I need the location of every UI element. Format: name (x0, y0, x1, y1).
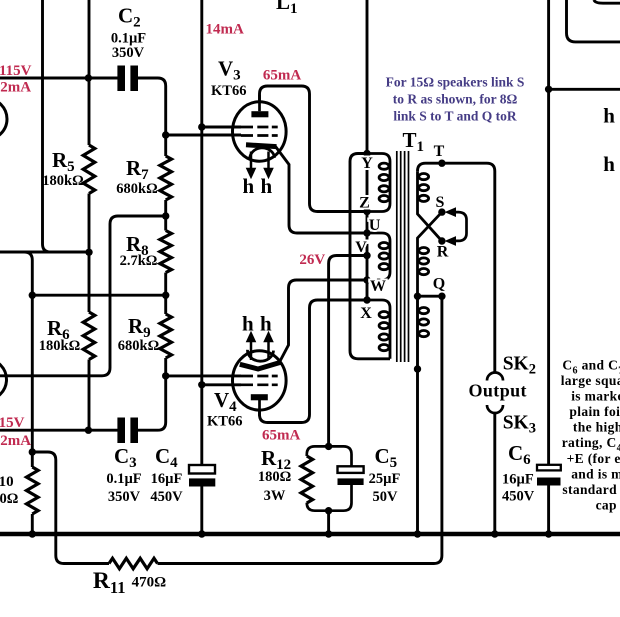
svg-text:S: S (436, 194, 445, 211)
svg-text:U: U (369, 217, 381, 234)
wire R10 top (31, 452, 34, 467)
resistor R10 (27, 467, 39, 514)
T1 secondary section T (418, 171, 442, 241)
svg-text:1.2mA: 1.2mA (0, 80, 31, 96)
resistor R8 (160, 231, 172, 273)
T1 secondary section below Q (419, 308, 429, 314)
transformer T1 (367, 151, 442, 362)
svg-text:16µF: 16µF (151, 471, 183, 487)
resistor R6 (83, 312, 95, 360)
svg-text:R7: R7 (126, 156, 149, 183)
wire R8 tap to V2 stage (0, 216, 166, 376)
svg-text:180kΩ: 180kΩ (42, 173, 83, 189)
svg-text:470Ω: 470Ω (132, 575, 167, 591)
svg-text:3W: 3W (264, 488, 286, 504)
svg-text:X: X (360, 305, 372, 322)
svg-text:450V: 450V (502, 489, 535, 505)
svg-text:+E (for ea: +E (for ea (567, 451, 620, 466)
wire C3 to V4 grid (137, 376, 165, 430)
wire V3 g1 row (166, 134, 241, 137)
svg-text:SK3: SK3 (503, 413, 536, 437)
wire screen rail x=202 (200, 0, 203, 465)
T1 core (397, 151, 409, 362)
note C6 C7 margin (561, 358, 620, 513)
svg-text:180kΩ: 180kΩ (39, 338, 80, 354)
svg-text:180Ω: 180Ω (258, 469, 291, 485)
wire V4 anode to X tap (260, 300, 368, 423)
wire R10 bottom to ground (31, 514, 34, 534)
svg-text:T: T (434, 143, 445, 160)
svg-text:14mA: 14mA (206, 22, 244, 38)
wire C3 row from V2 anode (0, 429, 118, 432)
wire feedback to Q tap (158, 296, 442, 563)
svg-text:cap: cap (596, 498, 617, 513)
wire V3 cathode to U tap (276, 147, 368, 234)
capacitor C2 (117, 66, 138, 92)
resistor R5 (83, 145, 95, 194)
svg-text:680kΩ: 680kΩ (118, 338, 159, 354)
SK3 socket (487, 405, 503, 413)
resistor R7 (160, 156, 172, 200)
svg-text:C6: C6 (508, 441, 531, 468)
T1 primary section Y-Z (367, 154, 382, 212)
svg-text:450V: 450V (150, 489, 183, 505)
svg-text:KT66: KT66 (207, 414, 242, 430)
svg-text:and is ma: and is ma (571, 467, 620, 482)
wire T tap to SK2 (418, 163, 495, 372)
svg-text:R: R (437, 244, 449, 261)
svg-text:16µF: 16µF (502, 472, 534, 488)
svg-text:standard s: standard s (562, 482, 620, 497)
wire y=78 from V1 anode to C2 (0, 77, 118, 80)
wire V4 g2 row (202, 383, 241, 386)
svg-text:h: h (603, 152, 615, 176)
wire V3 anode to Z tap (260, 86, 368, 212)
wire T1 HT feed from L1 (366, 0, 369, 154)
svg-text:25µF: 25µF (369, 471, 401, 487)
R12 C5 parallel loop (307, 446, 352, 510)
svg-text:V3: V3 (218, 57, 241, 84)
svg-text:100Ω: 100Ω (0, 491, 18, 507)
svg-text:115V: 115V (0, 415, 25, 431)
capacitor C5 (338, 466, 364, 485)
svg-text:KT66: KT66 (211, 83, 246, 99)
wire secondary bottom to ground (416, 296, 419, 534)
svg-text:h: h (603, 104, 615, 128)
svg-text:2.7kΩ: 2.7kΩ (120, 253, 158, 269)
wire R7-R8 link (164, 200, 167, 231)
svg-text:65mA: 65mA (262, 428, 300, 444)
T1 primary section U-W (367, 233, 390, 280)
svg-text:680kΩ: 680kΩ (116, 181, 157, 197)
svg-text:C3: C3 (114, 444, 137, 471)
svg-text:link S to T and Q toR: link S to T and Q toR (393, 109, 517, 124)
capacitor C3 (117, 418, 138, 444)
wire feedback takeoff (32, 452, 109, 564)
wire R6 bottom to C3 row (88, 360, 91, 431)
wire bias network to ground (327, 511, 330, 534)
wire from V1 stage at y=252 (0, 251, 89, 254)
svg-text:the highest: the highest (573, 420, 620, 435)
wire V tap to cathode bias network (329, 256, 367, 447)
svg-text:h: h (242, 312, 254, 336)
heater arrows V3 (251, 152, 269, 171)
svg-text:For 15Ω speakers link S: For 15Ω speakers link S (386, 75, 525, 90)
tube V3 (232, 95, 286, 178)
svg-text:350V: 350V (112, 45, 145, 61)
wire T1 primary tap line (366, 154, 369, 301)
T1 secondary section S-Q (418, 212, 442, 296)
wire HT distribution y=295 (32, 294, 165, 297)
tube V2 envelope partial (0, 359, 7, 400)
wire C6 feed (547, 0, 550, 465)
svg-text:R5: R5 (52, 148, 75, 175)
capacitor C6 (537, 465, 561, 486)
tube V4 (232, 332, 286, 416)
svg-text:h: h (243, 174, 255, 198)
wire V3 g2 row (202, 126, 241, 129)
svg-text:R9: R9 (128, 314, 151, 341)
svg-text:h: h (261, 174, 273, 198)
svg-text:350V: 350V (108, 489, 141, 505)
svg-text:C2: C2 (118, 4, 141, 31)
svg-text:Z: Z (359, 195, 370, 212)
resistor R12 (301, 456, 313, 503)
svg-text:W: W (370, 278, 386, 295)
svg-text:50V: 50V (373, 489, 399, 505)
heater arrows V4 (251, 342, 269, 360)
svg-text:is marked: is marked (571, 389, 620, 404)
SK2 socket (487, 373, 503, 381)
link S to R arrows (445, 207, 467, 246)
capacitor C4 (189, 465, 215, 487)
wire C2 right to V3 grid junction (137, 78, 165, 135)
wire corner down to node (24, 252, 32, 295)
wire C4 to ground (200, 487, 203, 535)
svg-text:plain foil: plain foil (569, 404, 620, 419)
svg-text:0.1µF: 0.1µF (106, 471, 141, 487)
wire SK3 to ground (493, 413, 496, 534)
svg-text:SK2: SK2 (503, 354, 536, 378)
svg-text:large square: large square (561, 373, 620, 388)
wire HT rail left (43, 0, 51, 252)
svg-text:Output: Output (469, 381, 527, 401)
svg-text:65mA: 65mA (263, 68, 301, 84)
svg-text:Y: Y (361, 155, 373, 172)
wire R8-R9 link (164, 273, 167, 314)
resistor R9 (160, 314, 172, 358)
svg-text:R11: R11 (93, 568, 126, 597)
wire top right inner corner (594, 0, 620, 3)
wire C6 to ground (547, 486, 550, 535)
svg-text:V: V (355, 239, 367, 256)
tube V1 envelope partial (0, 99, 7, 140)
T1 primary section X-bottom (367, 300, 390, 359)
svg-text:Q: Q (433, 276, 445, 293)
wire top right outer corner (567, 0, 620, 42)
wire R5 column (88, 0, 91, 145)
svg-text:R10: R10 (0, 463, 14, 490)
svg-text:C4: C4 (155, 444, 178, 471)
svg-text:h: h (260, 312, 272, 336)
svg-text:to R as shown, for 8Ω: to R as shown, for 8Ω (393, 92, 518, 107)
wire Q tap stub (418, 295, 442, 298)
ground bus (0, 532, 620, 537)
wire V4 cathode to W tap (279, 280, 367, 363)
wire heater feed top right (549, 88, 620, 91)
svg-text:1.2mA: 1.2mA (0, 433, 31, 449)
svg-text:L1: L1 (276, 0, 298, 17)
svg-text:26V: 26V (299, 252, 325, 268)
svg-text:T1: T1 (403, 128, 425, 155)
wire T1 primary return rail (350, 154, 390, 359)
wire R9 bottom to V4 g1 (166, 358, 241, 376)
svg-text:C5: C5 (375, 444, 398, 471)
svg-text:115V: 115V (0, 63, 32, 79)
wire vertical node column x=32 (31, 295, 34, 452)
wire R7 top (164, 135, 167, 156)
resistor R11 (109, 558, 158, 568)
